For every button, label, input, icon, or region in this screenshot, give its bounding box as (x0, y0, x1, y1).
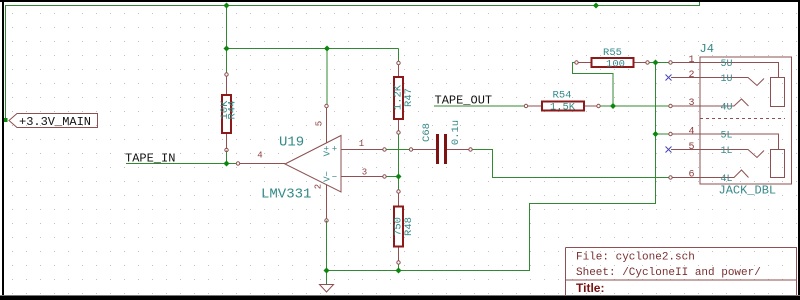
svg-text:Title:: Title: (576, 281, 604, 295)
svg-text:1U: 1U (720, 74, 732, 85)
svg-text:File: cyclone2.sch: File: cyclone2.sch (576, 252, 695, 264)
svg-text:J4: J4 (700, 42, 714, 56)
svg-text:4: 4 (257, 151, 262, 161)
svg-text:R48: R48 (403, 217, 415, 236)
svg-text:100: 100 (606, 59, 625, 71)
svg-text:5: 5 (315, 121, 325, 126)
svg-text:2: 2 (314, 184, 324, 189)
svg-text:TAPE_IN: TAPE_IN (125, 152, 175, 166)
svg-text:5: 5 (688, 142, 694, 153)
svg-text:−: − (332, 173, 337, 183)
svg-text:+3.3V_MAIN: +3.3V_MAIN (19, 115, 91, 129)
svg-text:3: 3 (362, 168, 367, 178)
svg-text:1L: 1L (720, 146, 732, 157)
svg-text:2: 2 (688, 70, 694, 81)
svg-text:LMV331: LMV331 (261, 187, 311, 203)
svg-text:3: 3 (688, 98, 694, 109)
svg-text:1: 1 (359, 139, 364, 149)
svg-text:1.5K: 1.5K (550, 102, 576, 114)
svg-text:0.1u: 0.1u (450, 120, 462, 145)
svg-text:4U: 4U (720, 103, 732, 114)
svg-text:5U: 5U (720, 59, 732, 70)
svg-text:R54: R54 (553, 90, 572, 102)
svg-text:6: 6 (688, 170, 694, 181)
svg-text:5L: 5L (720, 131, 732, 142)
svg-text:4L: 4L (720, 174, 732, 185)
svg-text:Sheet: /CycloneII and power/: Sheet: /CycloneII and power/ (576, 267, 761, 279)
svg-text:TAPE_OUT: TAPE_OUT (435, 94, 493, 108)
svg-text:C68: C68 (421, 123, 433, 142)
svg-text:+: + (332, 145, 337, 155)
svg-text:R44: R44 (227, 101, 239, 120)
svg-text:1: 1 (688, 55, 694, 66)
svg-text:U19: U19 (279, 135, 304, 151)
svg-text:4: 4 (688, 127, 694, 138)
svg-text:R55: R55 (603, 47, 622, 59)
svg-text:JACK_DBL: JACK_DBL (719, 184, 777, 198)
svg-text:R47: R47 (403, 88, 415, 107)
